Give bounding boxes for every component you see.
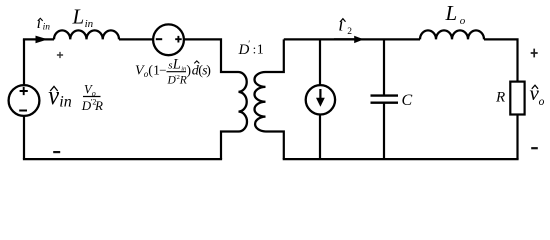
wire: bottom-right bus <box>283 158 519 160</box>
svg-text:L: L <box>172 57 181 73</box>
minus sign inside controlled source <box>156 38 162 40</box>
transformer primary winding <box>239 72 247 132</box>
svg-text:L: L <box>72 4 85 28</box>
plus sign inside controlled source <box>175 36 182 43</box>
wire: right rail below resistor <box>516 115 518 160</box>
svg-text:in: in <box>85 18 94 30</box>
current arrow i_2 <box>354 36 364 43</box>
svg-text:in: in <box>43 22 51 32</box>
wire: top-left segment to Lin <box>23 38 54 40</box>
controlled voltage source circle <box>153 24 184 55</box>
minus sign: input port bottom <box>53 151 60 153</box>
svg-text:R: R <box>495 90 505 106</box>
current source circle <box>306 85 335 114</box>
current arrow i_in <box>36 36 48 44</box>
inductor Lin <box>54 30 119 39</box>
wire: i_2 arrow shaft emphasis <box>334 38 354 40</box>
svg-text:C: C <box>402 92 413 109</box>
svg-text:ı: ı <box>37 15 41 32</box>
transformer secondary winding <box>254 72 265 132</box>
current source branch wires <box>319 39 321 159</box>
capacitor C plates <box>371 96 399 103</box>
wire: top-right bus from secondary to Lo <box>284 38 420 40</box>
svg-text:L: L <box>445 1 458 25</box>
minus sign: output port bottom <box>531 147 538 149</box>
minus sign inside v_in source <box>19 110 27 112</box>
svg-text:o: o <box>539 96 545 108</box>
plus sign: output port top <box>531 49 538 58</box>
inductor Lo <box>420 30 484 39</box>
svg-text:′: ′ <box>248 39 250 49</box>
svg-text:−: − <box>159 63 166 78</box>
plus sign: input port top <box>57 52 63 58</box>
plus sign inside v_in source <box>20 87 28 95</box>
svg-text:in: in <box>59 93 71 110</box>
wire: transformer secondary top <box>266 39 284 72</box>
wire: transformer primary bottom <box>221 132 239 160</box>
svg-text:2: 2 <box>347 27 352 37</box>
wire: Lo to right rail <box>484 39 518 81</box>
resistor R body <box>510 82 524 115</box>
svg-text:R: R <box>94 98 103 113</box>
wire: left rail (top and bottom of input source) <box>23 39 25 159</box>
wire: controlled source to transformer primary top <box>184 39 239 72</box>
svg-text::: : <box>253 42 257 57</box>
capacitor C branch wires <box>383 39 385 159</box>
wire: bottom-left rail <box>23 158 222 160</box>
current source arrow (downward) <box>319 89 321 99</box>
svg-text:o: o <box>460 15 466 27</box>
voltage source v_in <box>9 85 40 116</box>
svg-text:): ) <box>206 64 211 79</box>
wire: transformer secondary bottom <box>266 132 284 160</box>
wire: Lin to controlled source <box>119 38 153 40</box>
svg-text:): ) <box>186 64 191 79</box>
svg-text:1: 1 <box>257 43 264 58</box>
svg-text:ı: ı <box>338 15 343 36</box>
